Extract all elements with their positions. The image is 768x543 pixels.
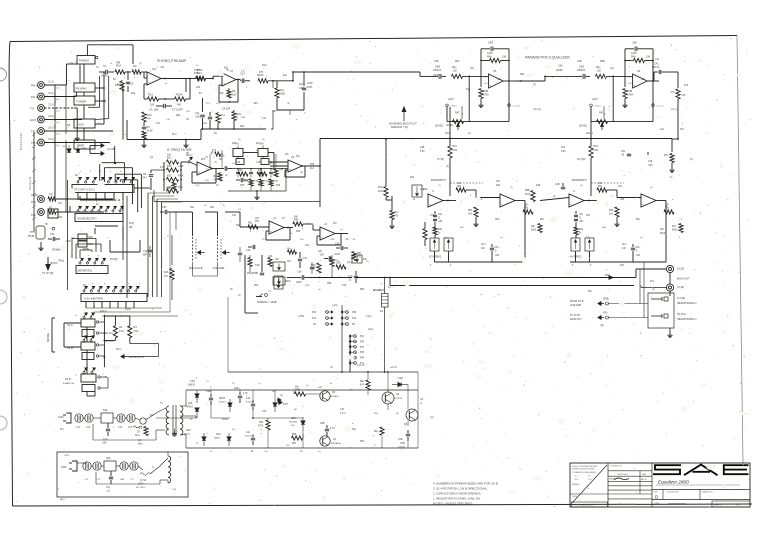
- svg-text:N4003: N4003: [186, 407, 193, 409]
- svg-text:S3 B: S3 B: [65, 377, 71, 381]
- svg-text:(B): (B): [129, 226, 133, 229]
- capacitor pair band 4: [575, 211, 577, 214]
- svg-text:+TOP: +TOP: [307, 82, 314, 85]
- svg-text:(o): (o): [340, 229, 343, 231]
- svg-text:C4 22P: C4 22P: [222, 108, 231, 111]
- PSU top rail: [186, 389, 418, 391]
- svg-text:SHEET 1: SHEET 1: [714, 505, 723, 507]
- switch TAPE box: [74, 140, 95, 149]
- capacitor C12 row: [236, 179, 240, 181]
- pin P2: [326, 323, 329, 326]
- svg-text:F1 5A: F1 5A: [140, 479, 147, 482]
- svg-text:CR3: CR3: [190, 380, 195, 383]
- svg-text:(P6): (P6): [603, 313, 608, 315]
- svg-text:R56: R56: [296, 231, 301, 233]
- svg-text:S5b: S5b: [210, 207, 215, 209]
- PSU bottom rail: [186, 447, 418, 449]
- svg-text:3(o): 3(o): [470, 68, 474, 70]
- transformer center tap ground: [174, 429, 176, 432]
- wire into op-amp stage 5: [463, 75, 489, 77]
- ground output jacks: [669, 328, 671, 333]
- svg-text:475: 475: [259, 71, 264, 74]
- svg-text:BALANCE: BALANCE: [190, 266, 203, 270]
- wires mode resistor bottoms: [114, 338, 116, 341]
- resistor R55 900: [292, 436, 303, 440]
- svg-text:R56: R56: [294, 219, 299, 222]
- wire lower pin column: [349, 336, 351, 363]
- svg-text:P34: P34: [312, 311, 317, 314]
- svg-text:R26: R26: [58, 217, 63, 219]
- second filter small boxes row2: [236, 159, 244, 165]
- wire node A to R3: [125, 71, 131, 73]
- wire right EQ column down: [671, 139, 673, 152]
- switch bank box SOURCE/COPY: [75, 214, 123, 222]
- paper punch hole lower: [0, 416, 7, 430]
- svg-text:470: 470: [671, 91, 676, 94]
- tone stage op-amp IC7: [269, 221, 284, 234]
- resistor R2 vertical: [113, 326, 117, 338]
- svg-text:c: c: [106, 201, 107, 203]
- P1x diode symbols: [67, 149, 71, 152]
- switch bank box S-D LINE/TAPE: [81, 294, 147, 302]
- resistor R top band 3: [456, 188, 466, 192]
- svg-text:2700: 2700: [628, 95, 634, 97]
- svg-text:R8a: R8a: [176, 115, 181, 117]
- svg-text:16V: 16V: [272, 391, 276, 393]
- resistor R72: [670, 154, 674, 163]
- svg-text:R16: R16: [188, 402, 193, 405]
- svg-text:(7): (7): [214, 162, 217, 164]
- wires headphone box: [653, 299, 655, 316]
- svg-text:R3: R3: [133, 64, 137, 68]
- svg-text:1000/10: 1000/10: [433, 70, 442, 72]
- secondary mid tap wire: [180, 415, 196, 417]
- svg-text:xx0 (xx): xx0 (xx): [533, 109, 541, 111]
- resistor R33 100: [167, 160, 179, 164]
- wires TP COPY box down: [77, 193, 79, 201]
- input jack AUX: [38, 116, 45, 123]
- svg-text:MPSA05p: MPSA05p: [331, 442, 342, 445]
- svg-text:CR5: CR5: [186, 430, 191, 432]
- svg-text:47K: 47K: [160, 167, 165, 169]
- svg-text:NOTES: UNLESS SPECIFIED:: NOTES: UNLESS SPECIFIED:: [433, 502, 473, 506]
- transformer secondary wires: [180, 405, 186, 407]
- svg-text:16V: 16V: [291, 425, 295, 427]
- capacitor C7A .05: [355, 271, 357, 275]
- svg-text:C3A: C3A: [297, 271, 302, 274]
- svg-text:TP2: TP2: [31, 213, 36, 217]
- size code row: [652, 489, 750, 491]
- relay RL1: [382, 294, 389, 308]
- capacitor C19 .055: [209, 112, 211, 116]
- capacitor C9 .047: [150, 170, 152, 173]
- svg-text:C2B: C2B: [400, 443, 405, 445]
- resistor R45 row: [257, 172, 267, 176]
- svg-text:3(o): 3(o): [610, 68, 614, 70]
- svg-text:5(1): 5(1): [296, 156, 300, 158]
- svg-text:(1): (1): [438, 185, 441, 187]
- resistor R40 2100 left of band1: [384, 187, 388, 198]
- svg-text:41A: 41A: [310, 167, 315, 170]
- svg-text:C66: C66: [632, 41, 637, 45]
- svg-text:1(V): 1(V): [305, 285, 310, 287]
- svg-text:-: -: [321, 229, 322, 233]
- svg-text:R6A: R6A: [631, 56, 636, 59]
- svg-text:4. NUMBERS IN PARENTHESES ARE: 4. NUMBERS IN PARENTHESES ARE FOR CH B.: [433, 482, 499, 486]
- switch S3B box: [81, 374, 96, 382]
- feedback resistor 33A stage 6: [634, 58, 645, 62]
- svg-text:R1x: R1x: [596, 66, 601, 69]
- svg-text:CR5a: CR5a: [222, 419, 229, 421]
- svg-text:R2w: R2w: [237, 113, 242, 116]
- capacitor C5 symbol: [156, 105, 163, 107]
- svg-text:68P: 68P: [143, 255, 148, 257]
- wire relay to bus: [384, 278, 386, 294]
- wire tone left vertical: [171, 235, 173, 265]
- wire into op-amp stage 6: [607, 75, 633, 77]
- svg-text:(o): (o): [533, 84, 536, 86]
- wire bus to main out jack: [636, 268, 666, 270]
- switch TUNER box: [74, 96, 95, 105]
- switch S3B contacts: [83, 371, 85, 373]
- resistor R3: [132, 70, 141, 74]
- svg-text:S-D LINE/TAPE: S-D LINE/TAPE: [84, 297, 103, 301]
- inductor 240V: [168, 456, 171, 483]
- bus wire y285 jack feed: [390, 285, 634, 287]
- svg-text:R4B: R4B: [484, 90, 489, 93]
- input jack PH2: [38, 93, 45, 100]
- feedback wires IC1: [144, 83, 147, 85]
- svg-text:C74: C74: [128, 427, 133, 429]
- svg-text:5C: 5C: [230, 289, 233, 291]
- svg-text:100P: 100P: [296, 282, 302, 284]
- svg-text:4.75: 4.75: [330, 428, 335, 430]
- svg-text:R1x: R1x: [452, 66, 457, 69]
- headphone jack 2 symbol: [651, 298, 662, 300]
- svg-text:xxx (xx): xxx (xx): [513, 106, 520, 108]
- SOURCE COPY switch row: [77, 210, 79, 212]
- svg-text:-: -: [501, 196, 502, 200]
- jack TP2 out: [38, 209, 45, 216]
- ground right EQ: [671, 163, 673, 169]
- svg-text:CR2: CR2: [398, 377, 403, 380]
- resistor R31 below: [170, 269, 174, 280]
- pin P9: [346, 323, 349, 326]
- svg-text:F2(x): F2(x): [116, 349, 122, 351]
- svg-text:P6A: P6A: [620, 264, 625, 267]
- svg-text:47A: 47A: [360, 384, 365, 387]
- svg-text:PH 1: PH 1: [31, 84, 38, 88]
- long bus wire y139 from filter to right: [320, 138, 672, 140]
- jack TP1 out: [38, 196, 45, 203]
- svg-text:R6B: R6B: [600, 61, 605, 63]
- svg-text:U6b: U6b: [620, 199, 625, 201]
- svg-text:C35: C35: [335, 243, 340, 246]
- wires band lower 4: [575, 251, 577, 262]
- svg-text:-: -: [148, 74, 149, 78]
- svg-text:P27: P27: [360, 347, 365, 349]
- svg-text:3(5): 3(5): [484, 83, 488, 85]
- svg-text:R4B: R4B: [628, 90, 633, 93]
- svg-text:UNLESS OTHERWISE SPECIFIED: UNLESS OTHERWISE SPECIFIED: [572, 466, 598, 468]
- svg-text:R51: R51: [453, 145, 458, 148]
- svg-text:C37: C37: [340, 409, 345, 411]
- LED CR7: [273, 403, 277, 406]
- capacitor C23 tone in: [160, 211, 164, 213]
- wires S3B down: [86, 392, 88, 397]
- wire W1 to IC3: [190, 162, 197, 166]
- svg-text:(o): (o): [330, 367, 333, 369]
- svg-text:AU7: AU7: [622, 243, 627, 246]
- switch S4 small boxes: [78, 234, 87, 240]
- svg-text:R2 47xx: R2 47xx: [105, 341, 114, 343]
- svg-text:P33: P33: [352, 311, 357, 314]
- svg-text:C4R: C4R: [66, 241, 71, 243]
- resistor R57: [352, 252, 356, 261]
- svg-text:R45: R45: [258, 169, 263, 172]
- resistor R5A 10K vertical: [317, 263, 321, 273]
- svg-text:R49: R49: [310, 164, 315, 166]
- resistor R input 22K stage 6: [596, 74, 607, 78]
- svg-text:T1B: T1B: [172, 489, 177, 491]
- svg-text:C54: C54: [586, 215, 591, 217]
- resistor R4B 2700 below loop stage 6: [624, 73, 626, 87]
- svg-text:(B): (B): [396, 413, 399, 415]
- resistor R24 vertical: [232, 112, 236, 121]
- svg-text:PH(B): PH(B): [28, 236, 34, 238]
- resistor R1A: [115, 70, 125, 74]
- svg-text:NORMAL / -15dB: NORMAL / -15dB: [257, 301, 277, 304]
- svg-text:J1(J2): J1(J2): [31, 194, 38, 197]
- op-amp IC1: [147, 72, 161, 85]
- svg-text:470P: 470P: [307, 86, 313, 89]
- wires output network verticals: [639, 269, 641, 304]
- ground stage 5: [480, 99, 482, 104]
- svg-text:47K: 47K: [147, 118, 152, 121]
- switch bank box TP COPY-1-2/2-1: [72, 185, 134, 193]
- svg-text:S1 A: S1 A: [67, 323, 73, 327]
- capacitor C21 470P output: [303, 72, 305, 86]
- wires S1 chain contacts: [99, 321, 105, 323]
- wires to second op-amp band 3: [466, 189, 476, 191]
- svg-text:2700: 2700: [258, 426, 264, 428]
- svg-text:C5: C5: [130, 82, 134, 86]
- svg-text:5600: 5600: [672, 230, 678, 232]
- jack J7: [666, 284, 673, 291]
- test point circles stage 5: [446, 104, 449, 107]
- vertical bus wires left pair: [122, 84, 124, 140]
- wire R70 down to bus: [677, 99, 679, 139]
- filter stack side rails: [163, 162, 165, 191]
- sheet cell: [712, 501, 750, 507]
- svg-text:-: -: [634, 76, 635, 80]
- svg-text:2(o): 2(o): [56, 122, 60, 124]
- wire balance to tone: [239, 212, 241, 227]
- pot R61 vertical: [273, 277, 285, 285]
- resistor R15 vertical: [216, 113, 220, 123]
- transistor Q3: [406, 409, 418, 421]
- svg-text:R39: R39: [238, 169, 243, 172]
- svg-text:R1b: R1b: [196, 87, 201, 89]
- coupling capacitor band 3: [491, 244, 493, 247]
- border frame top: [10, 36, 737, 42]
- wire op-amp out stage 5: [503, 80, 515, 82]
- svg-text:6.8K: 6.8K: [453, 150, 458, 152]
- svg-text:16V: 16V: [286, 445, 290, 447]
- svg-text:C1: C1: [103, 64, 107, 68]
- op-amp IC4 filter2: [288, 160, 302, 172]
- wire IC3 out: [212, 168, 224, 170]
- svg-text:3. S1-4 ROTATION, CW B DI: 3. S1-4 ROTATION, CW B DIRECTIONAL,: [433, 487, 488, 491]
- svg-text:R4 41xx: R4 41xx: [105, 333, 114, 335]
- svg-text:N4003: N4003: [188, 385, 195, 387]
- svg-text:22P: 22P: [318, 251, 323, 253]
- pin P27: [354, 345, 357, 348]
- feedback loop legs stage 5: [480, 49, 482, 73]
- op-amp band A 3: [428, 194, 443, 207]
- wire relay contacts top: [374, 289, 385, 291]
- svg-text:10 O/B: 10 O/B: [107, 147, 115, 151]
- svg-text:TP COPY-1-2/2-1: TP COPY-1-2/2-1: [74, 188, 95, 192]
- svg-text:11P: 11P: [275, 259, 279, 261]
- svg-text:H.T(B): H.T(B): [437, 159, 444, 161]
- wires band A 4: [584, 200, 597, 202]
- resistor R13: [197, 76, 206, 80]
- svg-text:BANDWIDTH: BANDWIDTH: [431, 179, 446, 182]
- wire mode left rail: [64, 322, 81, 324]
- svg-text:1(o): 1(o): [497, 79, 501, 81]
- pin P11: [346, 317, 349, 320]
- svg-text:R9A: R9A: [147, 113, 152, 117]
- svg-text:VOLUME: VOLUME: [213, 266, 225, 270]
- svg-text:SOURCE/COPY: SOURCE/COPY: [77, 217, 97, 221]
- ground phono input stage: [143, 139, 145, 143]
- svg-text:J6(J): J6(J): [48, 137, 54, 141]
- DEFEAT EQ switch row: [79, 262, 81, 264]
- svg-text:(ALT): (ALT): [60, 498, 66, 501]
- svg-text:11P: 11P: [287, 261, 291, 263]
- PSU mid rail y418: [156, 417, 197, 419]
- pin P30: [354, 340, 357, 343]
- wire relay down: [384, 307, 386, 372]
- SAE logo: [653, 464, 749, 475]
- svg-text:2. CAPACITORS IN MICROFARADS,: 2. CAPACITORS IN MICROFARADS,: [433, 492, 481, 496]
- svg-text:R5t: R5t: [236, 224, 240, 227]
- drawn row: [608, 480, 652, 482]
- svg-text:HEADPHONES 1: HEADPHONES 1: [677, 318, 697, 321]
- feedback IC4: [285, 169, 288, 171]
- svg-text:R44: R44: [579, 229, 584, 231]
- tone stage op-amp IC8: [320, 227, 335, 240]
- svg-text:TO CH (B): TO CH (B): [42, 272, 53, 275]
- svg-text:J3(J): J3(J): [48, 103, 54, 107]
- svg-text:K4B: K4B: [420, 147, 425, 149]
- svg-text:y: y: [98, 255, 99, 257]
- svg-text:1K: 1K: [216, 185, 219, 187]
- resistor 105 band 3: [523, 210, 533, 214]
- svg-text:N5246B: N5246B: [289, 422, 297, 424]
- pot R4A mid: [412, 185, 422, 197]
- svg-text:P6(B): P6(B): [83, 248, 89, 251]
- svg-text:C71: C71: [76, 427, 81, 429]
- svg-text:TUNER: TUNER: [76, 100, 86, 104]
- svg-text:R28: R28: [219, 93, 224, 95]
- capacitor C64 4.7: [239, 392, 241, 395]
- svg-text:R56: R56: [360, 441, 365, 443]
- svg-text:R36: R36: [166, 187, 171, 190]
- wire between band stages: [540, 198, 569, 201]
- svg-text:5A: 5A: [214, 132, 217, 135]
- svg-text:(o): (o): [318, 451, 321, 453]
- svg-text:33A: 33A: [502, 56, 507, 59]
- arrow to CH B down: [47, 257, 49, 266]
- svg-text:R35: R35: [167, 165, 172, 168]
- svg-text:2(7): 2(7): [628, 77, 632, 79]
- svg-text:(o): (o): [306, 385, 309, 387]
- wire phono output to parametric EQ input: [293, 71, 420, 73]
- switch S7B small box: [48, 209, 58, 218]
- second op-amp band 3: [500, 194, 515, 207]
- svg-text:q: q: [104, 283, 105, 285]
- transistor Q1: [320, 436, 330, 446]
- resistor R6z: [380, 427, 384, 437]
- freq pots band 3: [430, 238, 439, 251]
- svg-text:Equalizer 2800: Equalizer 2800: [658, 480, 689, 485]
- AC plug 240V: [72, 461, 77, 471]
- switch S4A power: [101, 413, 113, 423]
- svg-text:4.7xx: 4.7xx: [340, 413, 346, 415]
- svg-text:100K: 100K: [280, 93, 286, 96]
- svg-text:(x): (x): [280, 395, 283, 397]
- resistor R5B 2100 vertical: [531, 191, 535, 202]
- svg-text:-: -: [270, 223, 271, 227]
- svg-text:R39: R39: [240, 185, 245, 187]
- svg-text:SLO: SLO: [135, 435, 140, 437]
- feedback resistor R8 inside loop: [227, 90, 231, 98]
- svg-text:.058: .058: [253, 103, 258, 105]
- resistor R42 470 + ground: [390, 211, 394, 220]
- input jack TP2 in: [38, 139, 45, 146]
- wires to second op-amp band 4: [607, 189, 617, 191]
- contract no cell: [608, 470, 652, 472]
- svg-text:C3A: C3A: [246, 249, 251, 252]
- resistor R5B 900: [295, 392, 306, 396]
- arrow on bus P6A: [609, 276, 613, 280]
- output capacitor C41: [647, 80, 654, 82]
- svg-text:56.2: 56.2: [172, 134, 177, 136]
- svg-text:R58: R58: [327, 283, 332, 285]
- svg-text:PHONO PREAMP: PHONO PREAMP: [157, 59, 187, 63]
- svg-text:S1: S1: [70, 61, 74, 65]
- title block tolerance cell: [607, 463, 609, 507]
- svg-text:(P1x): (P1x): [62, 146, 67, 148]
- svg-text:240V: 240V: [61, 466, 67, 469]
- capacitor C48 .068: [647, 152, 649, 155]
- title block outer box: [570, 463, 750, 507]
- svg-text:56.2K: 56.2K: [147, 130, 154, 133]
- resistor R54 2700: [266, 420, 270, 430]
- feedback resistor 33A stage 5: [490, 58, 501, 62]
- svg-text:(o): (o): [690, 159, 693, 161]
- svg-text:3(5): 3(5): [628, 83, 632, 85]
- filter coupling C10 0010: [224, 166, 226, 171]
- wires into sliders: [172, 211, 193, 213]
- svg-text:L2(x): L2(x): [368, 329, 373, 331]
- filter mid row wire: [232, 168, 288, 170]
- svg-text:R2a: R2a: [131, 93, 136, 95]
- svg-text:99A/10: 99A/10: [652, 66, 660, 69]
- svg-text:F1(B): F1(B): [125, 309, 131, 311]
